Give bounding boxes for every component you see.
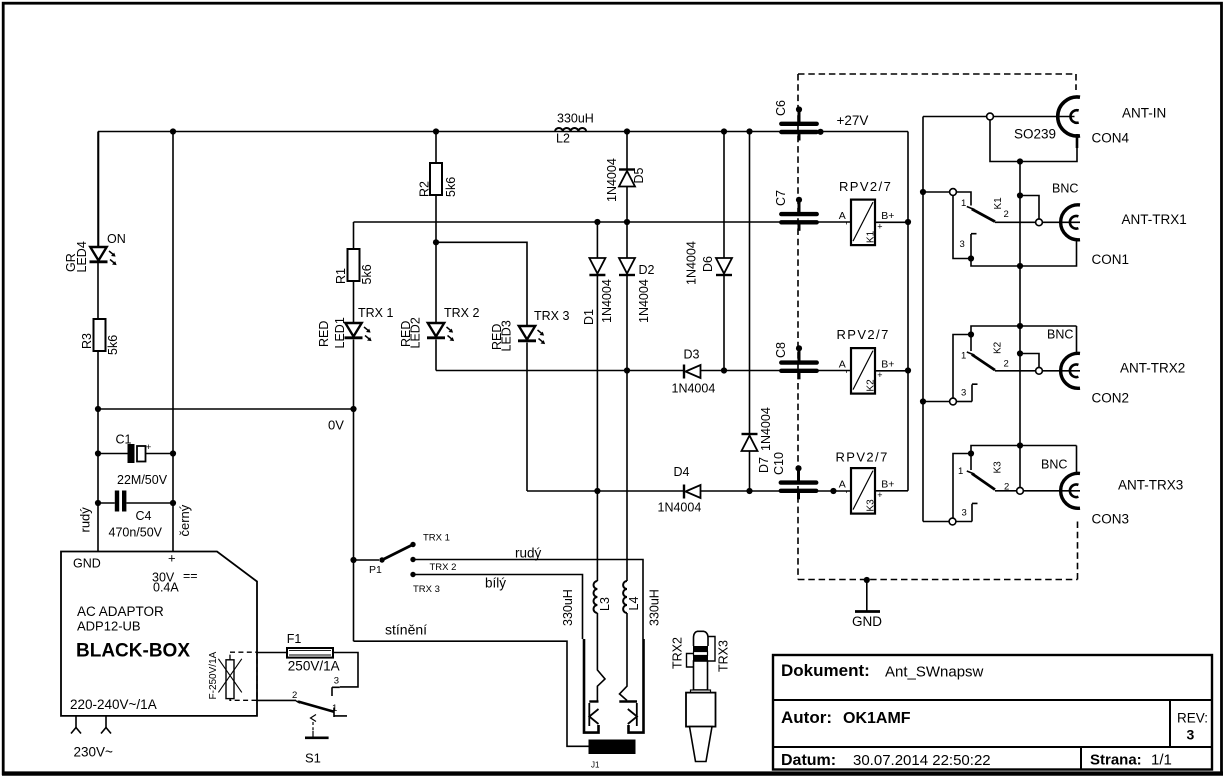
svg-text:C4: C4 [136, 509, 152, 523]
wire C1 left [98, 453, 128, 455]
svg-text:LED3: LED3 [500, 320, 514, 351]
wire left rail (rudy) [97, 132, 99, 552]
svg-text:CON3: CON3 [1092, 512, 1130, 527]
relay K2 RPV2/7 [851, 348, 875, 394]
svg-text:3: 3 [960, 239, 965, 250]
svg-text:': ' [846, 221, 848, 231]
svg-text:2: 2 [1004, 209, 1009, 220]
wire row B left part [436, 370, 684, 372]
capacitor C7 [796, 197, 802, 203]
wire bus to D7 [749, 132, 751, 435]
wire D2 down through rows to L4 [626, 275, 628, 581]
wire +V top bus [98, 131, 908, 133]
svg-text:rudý: rudý [77, 507, 92, 533]
svg-text:TRX2: TRX2 [671, 637, 685, 669]
wire to SO239 pin [993, 116, 1074, 118]
svg-text:LED2: LED2 [409, 317, 423, 348]
svg-text:Autor:: Autor: [781, 708, 832, 727]
svg-text:ANT-TRX3: ANT-TRX3 [1118, 478, 1183, 493]
svg-text:RPV2/7: RPV2/7 [836, 450, 889, 465]
svg-text:1: 1 [332, 703, 337, 714]
svg-text:CON1: CON1 [1092, 252, 1130, 267]
svg-text:L4: L4 [627, 597, 641, 611]
diode D1 1N4004 [589, 258, 605, 274]
svg-text:230V~: 230V~ [74, 745, 114, 760]
svg-text:ON: ON [107, 232, 126, 246]
ground GND [864, 577, 870, 583]
wire shell bus [1019, 162, 1021, 488]
svg-text:ANT-TRX2: ANT-TRX2 [1120, 361, 1185, 376]
wire F1 to S1 terminal 3 [333, 653, 358, 687]
svg-text:OK1AMF: OK1AMF [843, 710, 911, 727]
capacitor C10 [795, 465, 801, 471]
wire row A to D2 [626, 222, 628, 258]
fuse holder F-250V/1A [230, 652, 257, 700]
svg-text:330uH: 330uH [557, 112, 594, 126]
title block [773, 655, 1212, 770]
svg-text:1: 1 [961, 351, 966, 362]
svg-text:TRX 2: TRX 2 [444, 306, 479, 320]
svg-text:5k6: 5k6 [106, 335, 120, 355]
svg-text:F-250V/1A: F-250V/1A [208, 651, 219, 699]
svg-text:L2: L2 [556, 132, 570, 146]
svg-text:22M/50V: 22M/50V [117, 473, 168, 487]
svg-text:černý: černý [177, 504, 192, 536]
svg-text:F1: F1 [287, 632, 302, 646]
wire C1 right [146, 453, 174, 455]
node junction dots 0V [95, 406, 101, 412]
wire LED1 down to P1/stineni [353, 340, 355, 642]
svg-text:1N4004: 1N4004 [672, 382, 716, 396]
connector SO239 CON4 [1058, 97, 1080, 136]
wire 0V line [98, 408, 354, 410]
svg-text:TRX 3: TRX 3 [413, 584, 440, 595]
svg-text:BLACK-BOX: BLACK-BOX [76, 641, 190, 662]
svg-text:2: 2 [1004, 482, 1009, 493]
LED LED1 (RED) TRX1 [345, 323, 361, 337]
svg-text:3: 3 [962, 508, 967, 519]
svg-text:CON4: CON4 [1092, 131, 1130, 146]
wire K2 B+ to +27V rail [875, 370, 908, 372]
svg-text:C6: C6 [774, 100, 788, 116]
svg-text:K2: K2 [866, 379, 877, 392]
svg-text:2: 2 [1004, 359, 1009, 370]
svg-text:330uH: 330uH [648, 589, 662, 626]
svg-text:K2: K2 [993, 341, 1004, 354]
svg-text:+27V: +27V [837, 113, 869, 128]
wire LED2 to row B [435, 340, 437, 371]
svg-text:1: 1 [958, 466, 963, 477]
svg-text:rudý: rudý [515, 546, 542, 561]
svg-text:0.4A: 0.4A [153, 581, 179, 595]
svg-text:+: + [168, 551, 176, 566]
wire R1 top [353, 222, 355, 249]
svg-text:1N4004: 1N4004 [685, 241, 699, 285]
svg-text:Ant_SWnapsw: Ant_SWnapsw [885, 664, 984, 681]
svg-text:L3: L3 [598, 597, 612, 611]
svg-text:C8: C8 [774, 342, 788, 358]
diode D4 1N4004 [683, 485, 685, 499]
wire row A to D1 [596, 222, 598, 258]
diode D7 1N4004 [742, 433, 758, 435]
svg-text:CON2: CON2 [1092, 391, 1130, 406]
svg-text:LED1: LED1 [333, 317, 347, 348]
relay K3 RPV2/7 [851, 468, 875, 513]
relay contact k2 [971, 326, 1077, 354]
capacitor C1 22M/50V [128, 444, 135, 463]
svg-text:330uH: 330uH [561, 589, 575, 626]
wire C4 right [126, 502, 173, 504]
svg-text:3: 3 [334, 676, 339, 687]
wire SO239 shell loop [1076, 134, 1079, 148]
svg-text:1N4004: 1N4004 [637, 279, 651, 323]
svg-text:TRX 1: TRX 1 [423, 533, 450, 544]
svg-text:C1: C1 [116, 433, 132, 447]
svg-text:250V/1A: 250V/1A [288, 659, 340, 674]
svg-text:D1: D1 [582, 309, 596, 325]
diode D6 1N4004 [716, 258, 732, 274]
svg-text:R1: R1 [334, 268, 348, 284]
wire rail to LED4 [98, 132, 100, 248]
svg-text:': ' [846, 369, 848, 379]
svg-text:TRX3: TRX3 [717, 640, 731, 672]
svg-text:1: 1 [961, 198, 966, 209]
svg-text:K3: K3 [866, 499, 877, 512]
svg-text:RPV2/7: RPV2/7 [837, 327, 890, 342]
node terminal SO239 [987, 113, 994, 120]
relay contact k3 [971, 446, 1077, 475]
LED LED3 (RED) TRX3 [519, 326, 535, 340]
svg-text:==: == [183, 569, 198, 583]
svg-text:5k6: 5k6 [360, 264, 374, 284]
wire row C right part [699, 490, 851, 492]
capacitor C4 470n/50V [115, 491, 119, 512]
svg-text:B+: B+ [881, 210, 894, 222]
svg-text:GND: GND [73, 557, 101, 571]
svg-text:': ' [846, 489, 848, 499]
svg-text:30.07.2014 22:50:22: 30.07.2014 22:50:22 [853, 752, 991, 769]
diode D2 1N4004 [619, 258, 635, 274]
svg-text:1/1: 1/1 [1151, 752, 1172, 769]
svg-text:REV:: REV: [1177, 711, 1208, 726]
capacitor C6 [796, 106, 802, 112]
wire stineni to J1 [354, 641, 589, 746]
svg-text:S1: S1 [305, 751, 321, 766]
svg-text:2: 2 [292, 690, 297, 701]
resistor R1 5k6 [348, 249, 360, 281]
wire second rail (cerny) [172, 132, 174, 552]
svg-text:5k6: 5k6 [444, 177, 458, 197]
svg-text:K1: K1 [993, 197, 1004, 210]
wire L3 tip contact [597, 613, 605, 701]
svg-text:C7: C7 [774, 190, 788, 206]
svg-text:D5: D5 [632, 167, 646, 183]
svg-text:stínění: stínění [385, 622, 427, 638]
resistor R3 5k6 [94, 319, 106, 351]
connector plug TRX2/TRX3 [694, 631, 709, 646]
svg-text:K3: K3 [993, 461, 1004, 474]
svg-text:Dokument:: Dokument: [781, 661, 870, 680]
relay K1 RPV2/7 [851, 200, 875, 246]
resistor R2 5k6 [430, 163, 442, 195]
wire row A (K1 line) [354, 221, 852, 223]
node junction R2/LED2/LED3 [433, 239, 439, 245]
svg-text:RED: RED [317, 321, 331, 347]
svg-text:Datum:: Datum: [781, 752, 836, 769]
wire bus to D6 [723, 132, 725, 259]
wire bus to R2 [435, 132, 437, 164]
connector J1 body [589, 740, 636, 755]
diode D3 1N4004 [683, 365, 685, 379]
svg-text:SO239: SO239 [1014, 127, 1056, 142]
svg-text:GND: GND [852, 614, 882, 629]
svg-text:P1: P1 [369, 564, 382, 576]
svg-text:D4: D4 [674, 465, 690, 479]
wire C4 left [98, 502, 115, 504]
wire to LED2 [435, 242, 437, 322]
wire row B right part [699, 370, 851, 372]
svg-text:BNC: BNC [1041, 458, 1067, 472]
svg-text:Strana:: Strana: [1090, 752, 1142, 769]
svg-text:1N4004: 1N4004 [605, 158, 619, 202]
svg-text:3: 3 [961, 388, 966, 399]
svg-text:R3: R3 [80, 333, 94, 349]
wire K1 B+ to +27V rail [875, 221, 908, 223]
svg-text:K1: K1 [866, 230, 877, 243]
connector BNC CON3 [1061, 473, 1080, 508]
wire L4 tip contact [620, 613, 628, 701]
svg-text:1N4004: 1N4004 [759, 407, 773, 451]
svg-text:D2: D2 [639, 263, 655, 277]
node junctions row C [594, 488, 600, 494]
svg-text:+: + [146, 442, 151, 452]
svg-text:TRX 3: TRX 3 [534, 309, 569, 323]
node junctions row B [624, 367, 630, 373]
svg-text:3: 3 [1187, 727, 1195, 743]
capacitor C8 [796, 345, 802, 351]
relay contact k1 [920, 189, 926, 195]
svg-text:1N4004: 1N4004 [658, 501, 702, 515]
wire D1 down through row C to L3 [596, 275, 598, 581]
svg-text:RPV2/7: RPV2/7 [839, 179, 892, 194]
wire K3 B+ to +27V rail [875, 490, 908, 492]
shield dashed box [798, 74, 1076, 90]
wire row C left part [527, 490, 684, 492]
diode D5 1N4004 [619, 168, 635, 170]
AC adaptor BLACK-BOX [61, 552, 257, 716]
svg-text:J1: J1 [591, 761, 600, 770]
svg-text:D7: D7 [757, 457, 771, 473]
wire D7 to row C [749, 451, 751, 491]
inductor L4 330uH [623, 581, 627, 613]
svg-text:220-240V~/1A: 220-240V~/1A [70, 697, 157, 712]
node junction dots top bus [170, 128, 176, 134]
svg-text:1N4004: 1N4004 [600, 279, 614, 323]
wire bus to D5 [626, 132, 628, 170]
svg-text:BNC: BNC [1047, 328, 1073, 342]
svg-text:TRX 2: TRX 2 [430, 562, 457, 573]
svg-text:ADP12-UB: ADP12-UB [77, 619, 141, 634]
wire D6 to row B [723, 275, 725, 371]
svg-text:D6: D6 [701, 256, 715, 272]
svg-text:TRX 1: TRX 1 [358, 306, 393, 320]
wire common bus k1/k2/k3 [922, 117, 924, 522]
svg-text:AC ADAPTOR: AC ADAPTOR [77, 604, 164, 619]
wire D5 to row A [626, 187, 628, 223]
svg-text:B+: B+ [881, 479, 894, 491]
wire LED3 to row C [526, 343, 528, 492]
svg-text:470n/50V: 470n/50V [109, 526, 163, 540]
wire rudy (TRX2) [413, 560, 643, 640]
LED LED4 (GR) [90, 247, 106, 261]
switch P1 [350, 557, 356, 563]
node junctions row A [594, 219, 600, 225]
svg-text:D3: D3 [684, 348, 700, 362]
connector BNC CON2 [1061, 353, 1080, 388]
wire box to F1 [257, 652, 287, 654]
svg-text:0V: 0V [328, 418, 344, 433]
svg-text:B+: B+ [881, 359, 894, 371]
svg-text:BNC: BNC [1052, 182, 1078, 196]
svg-text:LED4: LED4 [75, 241, 89, 272]
wire R1 to LED1 [353, 281, 355, 323]
LED LED2 (RED) TRX2 [428, 323, 444, 337]
svg-text:ANT-IN: ANT-IN [1122, 106, 1166, 121]
svg-text:C10: C10 [772, 452, 786, 475]
inductor L3 330uH [594, 581, 598, 613]
wire box to S1 terminal 2 [257, 699, 296, 701]
connector BNC CON1 [1061, 205, 1080, 240]
svg-text:ANT-TRX1: ANT-TRX1 [1122, 212, 1187, 227]
inductor L2 330uH [555, 128, 586, 132]
wire R2 down [435, 195, 437, 242]
wire bily (TRX3) [413, 575, 583, 640]
wire jog to LED3 [436, 242, 527, 325]
svg-text:R2: R2 [418, 181, 432, 197]
wire ANT-IN feed [923, 116, 987, 118]
svg-text:bílý: bílý [485, 576, 506, 591]
mains pins 230V [75, 716, 77, 728]
wire +27V right rail [907, 132, 909, 491]
